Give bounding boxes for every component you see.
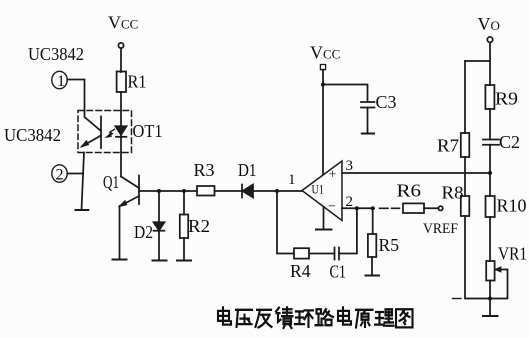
svg-text:Q1: Q1 — [103, 172, 119, 192]
svg-text:−: − — [328, 200, 336, 215]
svg-text:R7: R7 — [437, 136, 459, 156]
svg-text:2: 2 — [346, 194, 354, 210]
svg-text:R10: R10 — [497, 196, 527, 216]
svg-text:OT1: OT1 — [133, 121, 163, 141]
svg-text:+: + — [329, 168, 337, 183]
svg-text:R6: R6 — [397, 181, 422, 201]
svg-text:VCC: VCC — [108, 13, 138, 33]
svg-text:UC3842: UC3842 — [4, 125, 61, 145]
svg-text:D1: D1 — [238, 160, 257, 180]
svg-text:C3: C3 — [376, 92, 397, 112]
svg-text:1: 1 — [57, 73, 65, 90]
svg-text:3: 3 — [346, 158, 354, 174]
svg-text:R4: R4 — [290, 261, 311, 281]
svg-text:R9: R9 — [495, 89, 518, 109]
svg-text:1: 1 — [288, 172, 296, 188]
svg-text:R1: R1 — [128, 72, 147, 92]
svg-text:VREF: VREF — [423, 221, 458, 237]
svg-text:VCC: VCC — [310, 43, 340, 63]
svg-text:2: 2 — [56, 167, 64, 184]
svg-text:R5: R5 — [379, 235, 400, 255]
svg-text:VR1: VR1 — [498, 244, 527, 264]
svg-text:R3: R3 — [194, 160, 215, 180]
svg-text:C1: C1 — [330, 262, 347, 282]
svg-text:R2: R2 — [188, 216, 210, 236]
svg-text:R8: R8 — [442, 183, 464, 203]
svg-text:U1: U1 — [312, 182, 325, 197]
svg-text:VO: VO — [478, 14, 500, 34]
svg-text:UC3842: UC3842 — [28, 44, 84, 64]
svg-text:D2: D2 — [134, 222, 153, 242]
svg-text:C2: C2 — [499, 132, 520, 152]
